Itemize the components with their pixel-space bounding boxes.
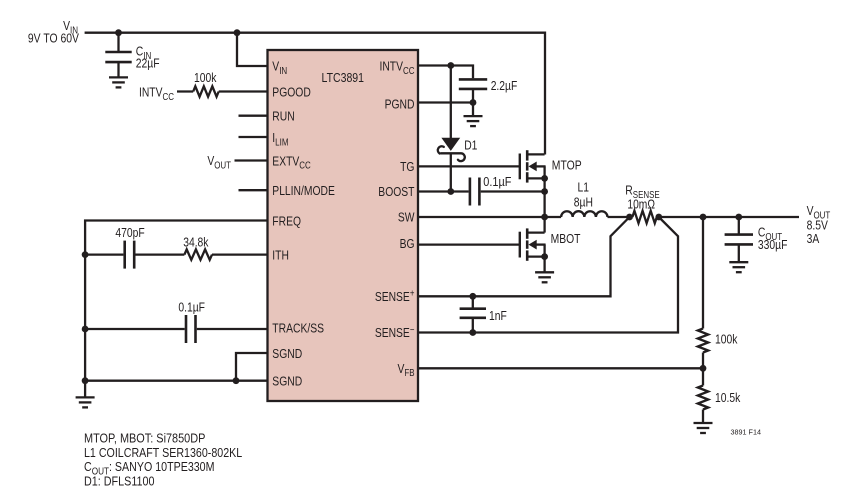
junction dot BOOST/SW node [541,188,548,195]
wire VFB to divider [418,367,703,369]
svg-text:CC: CC [403,66,415,77]
svg-text:0.1µF: 0.1µF [483,174,511,189]
wire INTVCC to bypass cap [418,66,473,79]
capacitor 0.1uF BOOST [470,178,480,206]
capacitor 2.2uF INTVCC bypass [459,79,487,89]
ground for PGND [472,103,474,117]
svg-text:OUT: OUT [214,161,231,172]
svg-text:BOOST: BOOST [378,184,414,199]
capacitor COUT 330uF [738,217,740,235]
svg-text:3A: 3A [807,231,820,246]
wire VIN top rail [85,33,545,155]
svg-text:SGND: SGND [272,346,302,361]
junction dot divider mid / VFB [700,365,707,372]
svg-text:−: − [410,325,415,336]
inductor L1 8uH [545,216,562,218]
junction dot feedback divider tap [700,214,707,221]
wire SENSE+ [418,217,630,296]
svg-text:8µH: 8µH [574,194,593,209]
junction dot RSENSE left / SENSE+ tap [626,214,633,221]
svg-text:10.5k: 10.5k [715,390,741,405]
junction dot PGND/cap [470,99,477,106]
svg-text:MTOP, MBOT: Si7850DP: MTOP, MBOT: Si7850DP [84,431,205,446]
junction dot COUT tap [735,214,742,221]
svg-text:0.1µF: 0.1µF [178,300,205,315]
ground for CIN [109,77,128,87]
svg-text:L1: L1 [578,180,590,195]
wire SGND upper [236,353,268,381]
wire BOOST to boost cap [418,190,469,192]
wire PGND [418,101,473,103]
svg-text:MTOP: MTOP [552,157,582,172]
svg-text:R: R [625,183,633,198]
junction dot MBOT source [541,253,548,260]
junction dot SW node [541,214,548,221]
junction dot TRACK/SS bus [82,326,89,333]
svg-text:RUN: RUN [272,109,294,124]
wire SGND lower [85,380,267,382]
resistor RSENSE 10mOhm [632,211,656,223]
svg-text:INTV: INTV [139,85,163,100]
svg-text:D1: DFLS1100: D1: DFLS1100 [84,473,155,488]
svg-text:PGOOD: PGOOD [272,84,311,99]
junction dot VIN pin tap [234,29,241,36]
wire RUN stub [239,115,268,117]
junction dot SGND bus [82,377,89,384]
junction dot SENSE+/1nF [469,293,476,300]
wire ILIM stub [239,136,268,138]
svg-text:100k: 100k [715,331,738,346]
svg-text:SENSE: SENSE [375,325,410,340]
svg-text:22µF: 22µF [136,56,160,71]
wire MBOT drain to SW [543,217,545,233]
svg-text:CC: CC [163,92,175,103]
svg-text:330µF: 330µF [758,237,788,252]
svg-text:34.8k: 34.8k [183,235,209,250]
junction dot D1 anode tap [447,62,454,69]
svg-text:470pF: 470pF [115,225,144,240]
svg-text:INTV: INTV [379,59,403,74]
svg-text:CC: CC [299,161,311,172]
wire VOUT rail [659,216,799,218]
svg-text:LIM: LIM [275,137,288,148]
svg-text:SGND: SGND [272,373,302,388]
svg-text:10mΩ: 10mΩ [627,196,655,211]
resistor 10.5k feedback lower [702,368,704,385]
svg-text:EXTV: EXTV [272,153,299,168]
svg-text:D1: D1 [464,138,477,153]
svg-text:FB: FB [404,368,414,379]
svg-text:3891 F14: 3891 F14 [731,429,762,436]
svg-text:ITH: ITH [272,248,289,263]
svg-text:FREQ: FREQ [272,213,301,228]
junction dot SENSE-/1nF [469,329,476,336]
svg-text:TRACK/SS: TRACK/SS [272,320,324,335]
svg-text:9V TO 60V: 9V TO 60V [28,31,79,46]
junction dot CIN tap [115,29,122,36]
wire MBOT source to ground [543,257,545,273]
capacitor 470pF ITH [85,253,123,255]
capacitor 1nF sense filter [472,296,474,308]
wire EXTVCC stub [235,159,268,161]
resistor 100k feedback upper [702,217,704,329]
junction dot SGND join [233,377,240,384]
junction dot ITH bus [82,251,89,258]
svg-text:2.2µF: 2.2µF [491,78,518,93]
svg-text:SENSE: SENSE [375,289,410,304]
IC U1 LTC3891 body [268,50,419,401]
wire PLLIN/MODE stub [239,189,268,191]
svg-text:PGND: PGND [385,96,415,111]
ground for COUT [729,262,748,272]
svg-text:MBOT: MBOT [551,231,581,246]
svg-text:100k: 100k [194,70,217,85]
wire FREQ to ground bus [85,221,267,398]
svg-text:BG: BG [400,236,415,251]
transistor MBOT NMOS [519,232,521,258]
svg-text:L1 COILCRAFT SER1360-802KL: L1 COILCRAFT SER1360-802KL [84,445,242,460]
junction dot D1 cathode / BOOST [447,188,454,195]
svg-text:8.5V: 8.5V [807,217,829,232]
svg-text:PLLIN/MODE: PLLIN/MODE [272,183,335,198]
wire VIN pin branch [237,33,268,66]
ground for MBOT [535,272,554,282]
wire TG to MTOP gate [418,165,520,167]
ground for SGND bus [76,397,95,407]
wire SW [418,216,545,218]
svg-text:+: + [410,289,415,300]
svg-text:C: C [84,459,92,474]
svg-text:1nF: 1nF [489,308,507,323]
junction dot MTOP source [541,175,548,182]
diode D1 schottky INTVCC to BOOST [450,66,452,139]
capacitor 0.1uF TRACK/SS [85,328,185,330]
svg-text:IN: IN [279,66,287,77]
ground for divider [694,423,713,433]
wire SENSE- [418,217,678,333]
svg-text:SW: SW [398,210,415,225]
junction dot RSENSE right / SENSE- tap [655,214,662,221]
wire BG to MBOT gate [418,243,520,245]
capacitor CIN 22uF [117,33,119,52]
svg-text:TG: TG [400,159,414,174]
transistor MTOP NMOS [519,154,521,180]
resistor 34.8k ITH [136,253,185,255]
wire MTOP source to SW node [543,178,545,217]
svg-text:LTC3891: LTC3891 [322,70,365,85]
resistor 100k PGOOD pull-up [177,90,193,92]
svg-text:: SANYO 10TPE330M: : SANYO 10TPE330M [109,459,214,474]
